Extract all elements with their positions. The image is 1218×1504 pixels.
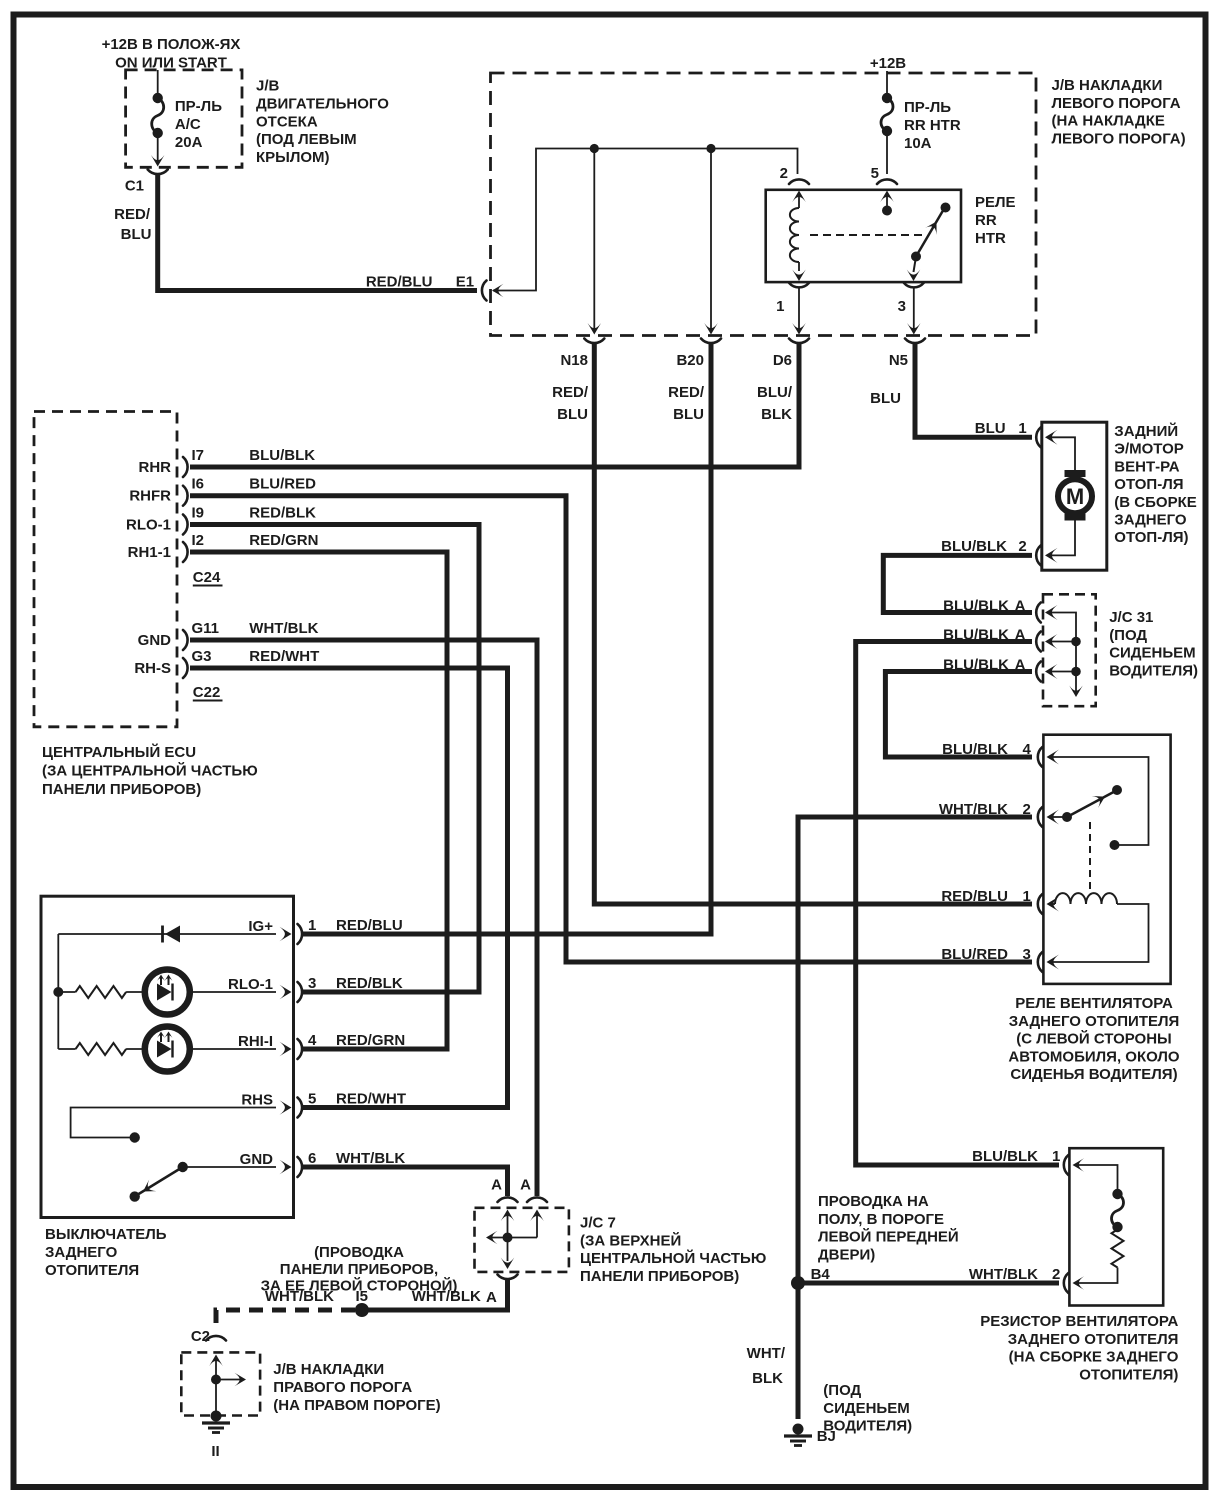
wire I6 BLU/RED to fan relay pin 3 [190, 496, 1032, 962]
svg-text:A: A [491, 1177, 502, 1194]
svg-text:BLU/RED: BLU/RED [249, 476, 316, 493]
svg-text:ПОЛУ, В ПОРОГЕ: ПОЛУ, В ПОРОГЕ [818, 1211, 944, 1228]
svg-text:Э/МОТОР: Э/МОТОР [1114, 441, 1183, 458]
svg-text:ЛЕВОГО ПОРОГА: ЛЕВОГО ПОРОГА [1052, 95, 1181, 112]
svg-text:1: 1 [1023, 888, 1031, 905]
relay switch arm [911, 252, 921, 262]
switch RHS sense line [71, 1108, 276, 1138]
svg-text:(ПОД: (ПОД [823, 1382, 861, 1399]
connector C1 [148, 170, 168, 175]
svg-text:GND: GND [240, 1151, 274, 1168]
connector D6 [789, 339, 809, 344]
relay RR HTR box [766, 190, 961, 282]
fan relay switch arm [1051, 816, 1064, 818]
svg-text:RLO-1: RLO-1 [126, 517, 171, 534]
svg-text:E1: E1 [456, 274, 474, 291]
wire switch GND WHT/BLK to J/C 7 [302, 1167, 508, 1196]
wire +12V to fuse RR HTR [886, 71, 888, 98]
svg-text:J/C 7: J/C 7 [580, 1215, 616, 1232]
svg-text:ВОДИТЕЛЯ): ВОДИТЕЛЯ) [823, 1418, 912, 1435]
svg-text:(НА ПРАВОМ ПОРОГЕ): (НА ПРАВОМ ПОРОГЕ) [273, 1397, 440, 1414]
svg-text:3: 3 [898, 298, 906, 315]
node rail junction [53, 987, 63, 997]
connector J/C31 pin A1 [1036, 603, 1041, 623]
svg-text:RED/BLK: RED/BLK [249, 505, 316, 522]
connector fan relay pin 4 [1038, 747, 1043, 767]
fan relay link [1089, 822, 1091, 894]
svg-text:ПРАВОГО ПОРОГА: ПРАВОГО ПОРОГА [273, 1379, 412, 1396]
connector fan relay pin 2 [1038, 807, 1043, 827]
connector fan relay pin 1 [1038, 894, 1043, 914]
svg-text:RED/WHT: RED/WHT [249, 648, 319, 665]
switch diode line IG+ [58, 933, 276, 935]
svg-text:ОТОПИТЕЛЯ: ОТОПИТЕЛЯ [45, 1262, 139, 1279]
resistor internal [1077, 1165, 1118, 1192]
svg-text:ДВЕРИ): ДВЕРИ) [818, 1246, 875, 1263]
connector E1 [482, 281, 487, 301]
svg-text:ЦЕНТРАЛЬНЫЙ ECU: ЦЕНТРАЛЬНЫЙ ECU [42, 743, 196, 761]
svg-text:I7: I7 [192, 447, 205, 464]
svg-text:ПАНЕЛИ ПРИБОРОВ,: ПАНЕЛИ ПРИБОРОВ, [280, 1261, 438, 1278]
svg-text:WHT/BLK: WHT/BLK [249, 620, 318, 637]
node I5 splice [355, 1303, 369, 1317]
wire C1 to E1 (RED/BLU) [158, 175, 477, 291]
svg-text:WHT/: WHT/ [747, 1345, 786, 1362]
svg-text:BLU/RED: BLU/RED [941, 946, 1008, 963]
node B4 splice [791, 1276, 805, 1290]
connector J/C31 pin A3 [1036, 662, 1041, 682]
connector J/C7 pin A left [498, 1197, 518, 1202]
J/C7 internal bus [501, 1210, 515, 1222]
svg-text:G11: G11 [192, 620, 220, 637]
wire B4 to BJ ground (WHT/BLK) [796, 1283, 801, 1419]
svg-text:(ПОД ЛЕВЫМ: (ПОД ЛЕВЫМ [256, 131, 357, 148]
svg-text:RED/BLU: RED/BLU [336, 917, 403, 934]
svg-text:B20: B20 [676, 352, 704, 369]
connector fan relay pin 3 [1038, 952, 1043, 972]
svg-text:RHI-I: RHI-I [238, 1033, 273, 1050]
svg-text:BLU: BLU [673, 406, 704, 423]
svg-text:1: 1 [776, 298, 784, 315]
wire J/C7 to I5 splice (WHT/BLK) [365, 1280, 508, 1310]
wire to B20 pin [710, 149, 712, 332]
svg-text:BJ: BJ [817, 1428, 836, 1445]
svg-text:B4: B4 [811, 1266, 831, 1283]
wire fan relay pin 2 WHT/BLK to B4 [798, 817, 1032, 1283]
svg-text:ВЫКЛЮЧАТЕЛЬ: ВЫКЛЮЧАТЕЛЬ [45, 1226, 167, 1243]
svg-text:ЗАДНЕГО ОТОПИТЕЛЯ: ЗАДНЕГО ОТОПИТЕЛЯ [1009, 1013, 1180, 1030]
fan resistor box [1069, 1148, 1163, 1305]
svg-text:1: 1 [308, 917, 316, 934]
switch resistor row 3 [58, 991, 75, 993]
svg-text:4: 4 [1023, 741, 1032, 758]
svg-text:СИДЕНЬЕМ: СИДЕНЬЕМ [1109, 645, 1195, 662]
svg-text:C22: C22 [193, 684, 221, 701]
J/B left sill dashed box [491, 73, 1037, 336]
svg-text:RHR: RHR [139, 459, 172, 476]
svg-text:BLU: BLU [121, 226, 152, 243]
svg-text:RR HTR: RR HTR [904, 117, 961, 134]
node junction N18 feed [590, 144, 599, 153]
svg-text:2: 2 [1052, 1266, 1060, 1283]
svg-text:10А: 10А [904, 135, 932, 152]
svg-text:HTR: HTR [975, 230, 1006, 247]
pin 1 of relay [789, 283, 809, 288]
motor M symbol [1058, 479, 1092, 513]
svg-text:ПАНЕЛИ ПРИБОРОВ): ПАНЕЛИ ПРИБОРОВ) [580, 1268, 739, 1285]
svg-text:I6: I6 [192, 476, 205, 493]
svg-text:РЕЛЕ ВЕНТИЛЯТОРА: РЕЛЕ ВЕНТИЛЯТОРА [1015, 995, 1173, 1012]
svg-text:ВЕНТ-РА: ВЕНТ-РА [1114, 458, 1180, 475]
fan relay contact circuit [1051, 757, 1149, 845]
svg-text:A: A [486, 1289, 497, 1306]
svg-text:BLU/BLK: BLU/BLK [942, 741, 1008, 758]
motor pin 2 internal wire [1050, 521, 1076, 556]
svg-text:ЗАДНЕГО ОТОПИТЕЛЯ: ЗАДНЕГО ОТОПИТЕЛЯ [1008, 1331, 1179, 1348]
switch internal rail [57, 934, 59, 1049]
svg-text:RED/WHT: RED/WHT [336, 1091, 406, 1108]
svg-text:ОТОП-ЛЯ: ОТОП-ЛЯ [1114, 476, 1183, 493]
svg-text:RR: RR [975, 212, 997, 229]
svg-text:BLU/BLK: BLU/BLK [943, 598, 1009, 615]
central ECU dashed box [34, 412, 177, 727]
svg-text:D6: D6 [773, 352, 792, 369]
svg-text:BLU/BLK: BLU/BLK [972, 1148, 1038, 1165]
svg-text:IG+: IG+ [248, 918, 273, 935]
svg-text:C1: C1 [125, 178, 144, 195]
wire G3 RED/WHT to switch pin 5 [190, 668, 508, 1108]
svg-text:(С ЛЕВОЙ СТОРОНЫ: (С ЛЕВОЙ СТОРОНЫ [1016, 1030, 1172, 1048]
svg-text:RHS: RHS [241, 1092, 273, 1109]
svg-text:BLK: BLK [752, 1370, 783, 1387]
svg-text:3: 3 [308, 975, 316, 992]
svg-text:II: II [211, 1443, 219, 1460]
svg-text:BLU: BLU [870, 390, 901, 407]
wire to N18 pin [593, 149, 595, 332]
connector N5 [905, 339, 925, 344]
svg-text:I2: I2 [192, 532, 205, 549]
J/B right sill internal [209, 1355, 223, 1367]
rear heater switch box [41, 896, 294, 1217]
svg-text:J/B НАКЛАДКИ: J/B НАКЛАДКИ [273, 1361, 384, 1378]
svg-text:RED/BLK: RED/BLK [336, 975, 403, 992]
svg-text:СИДЕНЬЕМ: СИДЕНЬЕМ [823, 1400, 909, 1417]
node junction B20 feed [706, 144, 715, 153]
svg-text:RHFR: RHFR [129, 488, 171, 505]
svg-text:ЗАДНЕГО: ЗАДНЕГО [45, 1244, 118, 1261]
motor brush bottom [1065, 514, 1086, 521]
svg-text:3: 3 [1023, 946, 1031, 963]
svg-text:RED/BLU: RED/BLU [941, 888, 1008, 905]
svg-text:4: 4 [308, 1032, 317, 1049]
svg-text:ВОДИТЕЛЯ): ВОДИТЕЛЯ) [1109, 662, 1198, 679]
svg-text:ЛЕВОЙ ПЕРЕДНЕЙ: ЛЕВОЙ ПЕРЕДНЕЙ [818, 1228, 959, 1246]
switch LED 1 [145, 970, 190, 1015]
svg-text:GND: GND [138, 632, 172, 649]
svg-text:RH-S: RH-S [134, 660, 171, 677]
wire I5 to C2 dashed (WHT/BLK) [216, 1310, 355, 1330]
svg-text:ЗАДНЕГО: ЗАДНЕГО [1114, 512, 1187, 529]
svg-text:ОТСЕКА: ОТСЕКА [256, 113, 318, 130]
svg-text:(НА СБОРКЕ ЗАДНЕГО: (НА СБОРКЕ ЗАДНЕГО [1009, 1349, 1179, 1366]
svg-text:RED/GRN: RED/GRN [249, 532, 318, 549]
svg-text:M: M [1066, 484, 1084, 509]
svg-text:5: 5 [871, 165, 879, 182]
ground II [211, 1411, 222, 1422]
svg-text:ЗАДНИЙ: ЗАДНИЙ [1114, 422, 1178, 440]
svg-text:(ЗА ВЕРХНЕЙ: (ЗА ВЕРХНЕЙ [580, 1231, 681, 1249]
connector motor pin 2 [1036, 545, 1041, 565]
svg-text:ЦЕНТРАЛЬНОЙ ЧАСТЬЮ: ЦЕНТРАЛЬНОЙ ЧАСТЬЮ [580, 1249, 766, 1267]
wire from +12V into fuse [157, 70, 159, 98]
connector resistor pin 2 [1064, 1273, 1069, 1293]
svg-text:J/B: J/B [256, 78, 280, 95]
connector J/C7 pin A right [527, 1197, 547, 1202]
wire J/C31 A2 to resistor pin 1 [856, 642, 1059, 1166]
fuse RR HTR 10A [882, 93, 892, 103]
svg-text:N5: N5 [889, 352, 908, 369]
svg-text:G3: G3 [192, 648, 212, 665]
svg-text:2: 2 [780, 165, 788, 182]
svg-text:BLU: BLU [975, 420, 1006, 437]
J/C 31 dashed box [1043, 594, 1096, 706]
svg-text:ДВИГАТЕЛЬНОГО: ДВИГАТЕЛЬНОГО [256, 95, 389, 112]
svg-text:A: A [520, 1177, 531, 1194]
wire N5 BLU to rear heater motor pin 1 [915, 344, 1032, 437]
wire E1 into J/B [492, 284, 504, 298]
wire D6 BLU/BLK to ECU pin I7 [190, 344, 799, 467]
wire G11 WHT/BLK to J/C 7 [190, 640, 537, 1196]
J/C31 internal bus [1050, 613, 1077, 693]
J/C 7 dashed box [475, 1208, 569, 1272]
svg-text:RED/: RED/ [668, 384, 705, 401]
connector resistor pin 1 [1064, 1155, 1069, 1175]
svg-text:BLK: BLK [761, 406, 792, 423]
wire N18 RED/BLU to fan relay pin 1 [594, 344, 1032, 904]
svg-text:(НА НАКЛАДКЕ: (НА НАКЛАДКЕ [1052, 113, 1165, 130]
svg-text:РЕЗИСТОР ВЕНТИЛЯТОРА: РЕЗИСТОР ВЕНТИЛЯТОРА [980, 1313, 1178, 1330]
svg-text:2: 2 [1018, 538, 1026, 555]
svg-text:RH1-1: RH1-1 [128, 544, 171, 561]
svg-text:ОТОПИТЕЛЯ): ОТОПИТЕЛЯ) [1079, 1366, 1178, 1383]
svg-text:WHT/BLK: WHT/BLK [969, 1266, 1038, 1283]
svg-text:+12В: +12В [870, 55, 906, 72]
svg-text:РЕЛЕ: РЕЛЕ [975, 194, 1016, 211]
wire I2 RED/GRN to switch pin 4 [190, 552, 447, 1049]
wire fuse to relay pin 5 [886, 131, 888, 174]
svg-text:КРЫЛОМ): КРЫЛОМ) [256, 149, 330, 166]
svg-text:RED/BLU: RED/BLU [366, 274, 433, 291]
svg-text:1: 1 [1018, 420, 1026, 437]
svg-text:СИДЕНЬЯ ВОДИТЕЛЯ): СИДЕНЬЯ ВОДИТЕЛЯ) [1010, 1066, 1177, 1083]
svg-text:+12В В ПОЛОЖ-ЯХ: +12В В ПОЛОЖ-ЯХ [102, 36, 241, 53]
svg-text:(В СБОРКЕ: (В СБОРКЕ [1114, 494, 1196, 511]
switch GND contact arm [183, 1166, 276, 1168]
svg-text:20А: 20А [175, 134, 203, 151]
wire fuse to C1 arrow [157, 133, 159, 164]
fan relay coil [1051, 903, 1055, 905]
svg-text:A: A [1015, 598, 1026, 615]
motor pin 1 internal wire [1050, 437, 1076, 471]
fuse A/C 20A [153, 93, 163, 103]
svg-text:(ПРОВОДКА: (ПРОВОДКА [314, 1244, 404, 1261]
svg-text:BLU/BLK: BLU/BLK [249, 447, 315, 464]
svg-text:BLU/: BLU/ [757, 384, 793, 401]
svg-text:АВТОМОБИЛЯ, ОКОЛО: АВТОМОБИЛЯ, ОКОЛО [1008, 1048, 1180, 1065]
svg-text:6: 6 [308, 1150, 316, 1167]
relay coil RR HTR [790, 208, 799, 262]
svg-text:J/B НАКЛАДКИ: J/B НАКЛАДКИ [1052, 77, 1163, 94]
wire B4 to resistor pin 2 (WHT/BLK) [798, 1281, 1059, 1286]
svg-text:1: 1 [1052, 1148, 1060, 1165]
svg-text:ЗА ЕЕ ЛЕВОЙ СТОРОНОЙ): ЗА ЕЕ ЛЕВОЙ СТОРОНОЙ) [261, 1277, 458, 1295]
J/B engine compartment dashed box [126, 70, 242, 167]
svg-text:5: 5 [308, 1091, 316, 1108]
svg-text:ПАНЕЛИ ПРИБОРОВ): ПАНЕЛИ ПРИБОРОВ) [42, 781, 201, 798]
svg-text:RED/GRN: RED/GRN [336, 1032, 405, 1049]
pin 3 of relay [904, 283, 924, 288]
connector motor pin 1 [1036, 427, 1041, 447]
svg-text:C24: C24 [193, 569, 221, 586]
connector N18 [584, 339, 604, 344]
svg-text:C2: C2 [191, 1328, 210, 1345]
wire J/C31 A3 to fan relay pin 4 [885, 672, 1032, 758]
relay mechanical link [810, 234, 924, 236]
fan relay box [1043, 735, 1170, 984]
switch LED 2 [145, 1027, 190, 1072]
svg-text:BLU: BLU [557, 406, 588, 423]
J/B right sill dashed box [181, 1352, 260, 1415]
svg-text:(ЗА ЦЕНТРАЛЬНОЙ ЧАСТЬЮ: (ЗА ЦЕНТРАЛЬНОЙ ЧАСТЬЮ [42, 761, 258, 779]
svg-text:RED/: RED/ [114, 206, 151, 223]
rear heater motor box [1042, 422, 1107, 570]
connector J/C7 pin A bottom [498, 1275, 518, 1280]
svg-text:RLO-1: RLO-1 [228, 976, 273, 993]
ground BJ [793, 1424, 804, 1435]
switch resistor row 4 [58, 1048, 75, 1050]
wire I9 RED/BLK to switch pin 3 [190, 525, 479, 993]
svg-text:ЛЕВОГО ПОРОГА): ЛЕВОГО ПОРОГА) [1052, 130, 1186, 147]
svg-text:А/С: А/С [175, 116, 201, 133]
connector J/C31 pin A2 [1036, 632, 1041, 652]
motor brush top [1065, 470, 1086, 477]
connector B20 [701, 339, 721, 344]
svg-text:ОТОП-ЛЯ): ОТОП-ЛЯ) [1114, 529, 1188, 546]
wire B20 RED/BLU to heater switch pin 1 [302, 344, 711, 934]
svg-text:BLU/BLK: BLU/BLK [941, 538, 1007, 555]
svg-text:RED/: RED/ [552, 384, 589, 401]
wire motor pin 2 to J/C 31 pin A1 [883, 555, 1032, 612]
svg-text:(ПОД: (ПОД [1109, 627, 1147, 644]
svg-text:J/C 31: J/C 31 [1109, 609, 1153, 626]
svg-text:ПР-ЛЬ: ПР-ЛЬ [175, 98, 222, 115]
svg-text:WHT/BLK: WHT/BLK [336, 1150, 405, 1167]
svg-text:I9: I9 [192, 505, 205, 522]
svg-text:ПРОВОДКА НА: ПРОВОДКА НА [818, 1193, 929, 1210]
svg-text:N18: N18 [560, 352, 588, 369]
svg-text:ПР-ЛЬ: ПР-ЛЬ [904, 99, 951, 116]
